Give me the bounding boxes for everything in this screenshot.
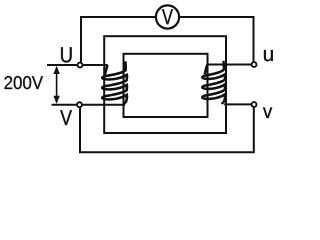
label U (61, 47, 71, 62)
wire bottom (V to v link) (80, 107, 254, 152)
wire top left (U to voltmeter) (81, 17, 156, 63)
label u (264, 50, 273, 61)
label V (60, 110, 72, 125)
wire U lead (tick + U terminal to winding) (47, 64, 108, 66)
dimension arrow 200V (53, 66, 59, 104)
terminal U (78, 63, 83, 68)
wire u lead (u terminal to winding) (207, 64, 253, 66)
transformer core outer edge (104, 36, 226, 133)
label 200V (5, 76, 44, 89)
terminal V (77, 102, 82, 107)
wire top right (voltmeter to u) (179, 17, 253, 62)
wire v lead (v terminal to winding) (224, 103, 253, 105)
secondary winding (right coil) (202, 61, 225, 104)
label v (263, 107, 272, 118)
wire V lead (tick + V terminal to winding) (52, 104, 126, 106)
terminal v (252, 102, 257, 107)
voltmeter V (156, 5, 179, 28)
terminal u (252, 62, 257, 67)
transformer core inner window (124, 54, 208, 117)
primary winding (left coil) (102, 61, 127, 104)
